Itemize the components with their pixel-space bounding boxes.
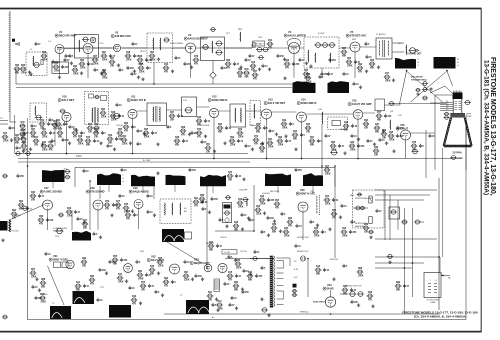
wire oscbox-V3 <box>173 47 186 49</box>
cluster right of S2 <box>169 114 176 118</box>
svg-text:V21: V21 <box>53 254 58 258</box>
svg-text:PWR A-C: PWR A-C <box>300 311 309 314</box>
wire <box>321 166 323 178</box>
svg-text:10K: 10K <box>108 143 113 145</box>
svg-text:47K: 47K <box>226 67 231 70</box>
wire V1 cathode <box>59 54 61 76</box>
svg-text:5U4G RECT: 5U4G RECT <box>313 301 326 304</box>
cluster right of B2 <box>352 82 355 86</box>
svg-text:6.3V: 6.3V <box>294 269 299 271</box>
cluster <box>115 103 118 107</box>
svg-text:R76: R76 <box>412 142 417 144</box>
svg-text:R21: R21 <box>73 129 78 131</box>
cluster <box>31 285 34 289</box>
svg-text:68K: 68K <box>19 209 24 211</box>
svg-text:47K: 47K <box>285 67 290 70</box>
cluster topB <box>101 72 108 76</box>
cluster r4h <box>230 296 233 300</box>
cluster t22 <box>130 72 133 76</box>
cluster right of V18 <box>104 203 111 207</box>
cluster t19 <box>364 42 367 46</box>
sound IF transformer box <box>201 37 225 61</box>
cluster t17 <box>328 58 331 62</box>
svg-text:R95: R95 <box>144 129 149 131</box>
resistor <box>41 60 43 65</box>
page border bottom <box>0 331 482 333</box>
cluster <box>183 260 186 264</box>
S4 winding B <box>240 108 243 122</box>
quadrature coil box D7 <box>160 199 191 224</box>
svg-text:DET: DET <box>352 39 357 41</box>
tube V2B osc <box>113 44 120 51</box>
svg-text:R29: R29 <box>238 129 243 131</box>
tube V18 <box>93 200 103 210</box>
cluster <box>68 125 71 129</box>
circle in hmult <box>357 193 363 196</box>
svg-text:100K: 100K <box>73 74 79 76</box>
svg-text:R46: R46 <box>234 221 239 224</box>
svg-text:T1 AUDIO: T1 AUDIO <box>376 33 386 36</box>
cluster A6 <box>72 131 79 135</box>
cluster <box>34 296 37 300</box>
cluster <box>223 141 226 144</box>
left boundary wire <box>27 165 29 320</box>
wire top row <box>196 47 252 49</box>
svg-text:68K: 68K <box>58 137 63 139</box>
svg-text:10K: 10K <box>88 132 93 134</box>
wire V11 down <box>132 119 134 154</box>
cluster <box>244 58 247 62</box>
hatch above CRT cap <box>454 91 462 93</box>
stub B7 <box>142 186 144 193</box>
wire V2 cathode <box>87 54 89 79</box>
svg-text:10K: 10K <box>374 155 379 157</box>
wire V5 cathode <box>354 52 356 78</box>
vertical wire x14.7 <box>14 115 16 154</box>
cluster <box>392 149 395 152</box>
cluster <box>146 210 149 214</box>
svg-text:V24: V24 <box>327 283 332 287</box>
cluster under V13 <box>255 126 262 130</box>
wire to connector <box>439 257 441 273</box>
sound takeoff transformer (black) <box>72 231 91 241</box>
svg-text:R17: R17 <box>385 73 390 75</box>
cluster <box>240 213 243 217</box>
svg-text:220K: 220K <box>230 145 236 147</box>
shield line ticks <box>9 13 11 113</box>
cluster x379 <box>376 114 383 118</box>
svg-text:220K: 220K <box>325 204 331 206</box>
cluster <box>294 244 297 248</box>
cluster t14 <box>267 42 274 46</box>
comp column a <box>422 82 428 86</box>
svg-text:R40: R40 <box>284 227 289 230</box>
cluster A8 <box>93 131 100 135</box>
svg-text:68K: 68K <box>150 274 155 276</box>
wire <box>321 68 323 78</box>
cluster above V23 <box>227 255 230 259</box>
cluster r2r <box>294 147 297 150</box>
svg-text:10K: 10K <box>21 138 26 140</box>
CRT funnel right side <box>465 118 472 147</box>
junction <box>330 313 332 315</box>
coil slug <box>215 41 223 46</box>
svg-text:R91: R91 <box>218 124 223 126</box>
junction <box>66 153 68 155</box>
cluster under V17 <box>38 218 45 222</box>
audio lead wire 4 <box>447 71 453 86</box>
cluster under V3 <box>183 62 186 66</box>
slug in S3 <box>184 107 192 113</box>
cluster t13 <box>248 54 251 58</box>
vert output transformer T5 (black) <box>50 306 71 319</box>
tap link a <box>283 261 285 269</box>
svg-text:R74: R74 <box>197 128 202 131</box>
cluster r3k <box>328 227 331 230</box>
cluster x78 <box>75 284 82 288</box>
page border top <box>0 8 482 10</box>
volume pot <box>56 228 64 234</box>
svg-text:R68: R68 <box>364 224 369 226</box>
cluster <box>82 222 89 226</box>
wire x308 <box>307 259 309 298</box>
volume pot left <box>22 206 29 210</box>
T1 box <box>376 38 392 59</box>
wire y257 <box>375 256 440 258</box>
wire V19 down <box>138 209 140 230</box>
small tube cap <box>90 37 96 43</box>
wire S3-V12 <box>197 106 210 108</box>
capacitor <box>429 87 432 91</box>
ground cluster <box>29 72 32 75</box>
svg-text:100K: 100K <box>314 236 320 238</box>
svg-text:47K: 47K <box>288 225 293 228</box>
cluster <box>255 208 262 212</box>
comp small <box>415 88 421 91</box>
svg-text:V3: V3 <box>188 33 192 37</box>
cluster r3d <box>218 218 221 222</box>
B+ bus 1 <box>15 153 248 155</box>
cluster r2o <box>244 144 247 148</box>
resistor row A <box>14 137 21 141</box>
svg-text:47K: 47K <box>194 63 199 66</box>
cluster r2m <box>205 146 212 150</box>
stub B5 <box>52 182 54 188</box>
svg-text:PEAK: PEAK <box>340 128 346 131</box>
cluster midA <box>30 124 33 128</box>
D7 coil A <box>164 203 167 215</box>
svg-text:6BC5 RF AMP: 6BC5 RF AMP <box>59 34 76 38</box>
svg-text:100K: 100K <box>54 71 60 73</box>
cluster <box>120 168 123 172</box>
junction <box>404 267 406 269</box>
wire T1 to det <box>392 42 404 44</box>
svg-text:220K: 220K <box>284 236 290 238</box>
svg-text:R17: R17 <box>83 220 88 222</box>
svg-text:220K: 220K <box>158 266 164 268</box>
junction <box>321 165 323 167</box>
junction <box>190 47 192 49</box>
resistor cluster <box>20 67 27 71</box>
wire <box>384 190 386 240</box>
svg-text:R27: R27 <box>58 129 63 131</box>
svg-text:68K: 68K <box>15 143 20 145</box>
svg-text:47K: 47K <box>124 130 129 133</box>
bus y162 <box>18 161 250 163</box>
svg-text:10K: 10K <box>382 138 387 140</box>
heater bus wire <box>16 87 292 89</box>
coil slug top <box>202 44 210 49</box>
wire y239 <box>375 238 437 240</box>
svg-text:220K: 220K <box>122 144 128 146</box>
black block B11 <box>303 173 323 186</box>
svg-text:47K: 47K <box>73 136 78 139</box>
svg-text:R32: R32 <box>21 130 26 132</box>
comp left edge bottom <box>2 315 8 319</box>
cluster r4c <box>98 268 101 272</box>
svg-text:R43: R43 <box>31 191 36 194</box>
circle right of B5 b <box>64 175 70 179</box>
circle right of B5 <box>64 170 70 174</box>
svg-text:R58: R58 <box>39 216 44 218</box>
wire <box>251 44 253 48</box>
osc coil 1 <box>152 38 155 50</box>
contrast pot <box>330 150 338 155</box>
svg-text:10K: 10K <box>306 132 311 134</box>
tube V20 <box>298 202 308 212</box>
cluster t20 <box>369 62 376 66</box>
pot x360 <box>357 292 364 297</box>
svg-text:C7 10: C7 10 <box>98 43 104 45</box>
wire V4-D4 <box>300 47 305 49</box>
cluster t3 <box>68 54 71 58</box>
svg-text:R43: R43 <box>197 116 202 119</box>
horiz osc coil <box>317 195 320 215</box>
cluster r2e <box>85 139 92 143</box>
svg-text:R99: R99 <box>230 137 235 139</box>
svg-text:10K: 10K <box>364 232 369 234</box>
cluster r4n <box>395 284 402 288</box>
svg-text:100K: 100K <box>278 145 284 147</box>
svg-text:R99: R99 <box>358 64 363 66</box>
cluster topA <box>64 54 67 58</box>
cluster x333 <box>330 144 337 148</box>
terminal dot B3 <box>406 70 408 72</box>
svg-text:6CB6 1ST IF: 6CB6 1ST IF <box>131 98 147 102</box>
comp on bus 2 <box>25 152 31 156</box>
cluster in tuner sub box <box>53 65 60 69</box>
svg-text:270V: 270V <box>76 155 82 158</box>
CRT neck cap (ion trap) <box>453 93 463 100</box>
svg-text:R32: R32 <box>248 272 253 274</box>
svg-text:47K: 47K <box>358 71 363 74</box>
svg-text:R61: R61 <box>194 198 199 200</box>
cluster t15 <box>276 54 279 58</box>
svg-text:R26: R26 <box>236 260 241 262</box>
svg-text:220K: 220K <box>256 214 262 216</box>
IF transformer box S2 <box>147 103 167 126</box>
svg-text:OSC: OSC <box>258 37 263 39</box>
svg-text:47K: 47K <box>116 208 121 211</box>
cluster left of V14 <box>281 122 288 126</box>
svg-text:68K: 68K <box>238 77 243 79</box>
svg-text:R43: R43 <box>238 198 243 201</box>
svg-text:12MG: 12MG <box>457 158 463 160</box>
cluster botA <box>112 258 119 262</box>
wire <box>389 195 391 240</box>
junction <box>266 158 268 160</box>
junction <box>307 258 309 260</box>
peaking coil x390 <box>389 120 392 130</box>
tube V23a <box>204 264 212 272</box>
CRT face <box>444 145 472 148</box>
cluster r4m <box>357 270 364 274</box>
svg-text:220K: 220K <box>184 280 190 282</box>
svg-text:10K: 10K <box>12 218 17 220</box>
cluster under S4 <box>237 131 244 135</box>
svg-text:100K: 100K <box>138 64 144 66</box>
transformer core <box>93 107 95 123</box>
ground <box>58 75 61 78</box>
svg-text:4.5MC SOUND: 4.5MC SOUND <box>44 190 62 194</box>
wire V2A-V2B <box>93 47 112 49</box>
wire y263 <box>375 262 424 264</box>
cluster t5 <box>101 54 108 58</box>
comp under PT <box>261 308 268 312</box>
svg-text:100K: 100K <box>282 128 288 130</box>
svg-text:INTERLOCK: INTERLOCK <box>297 251 309 253</box>
cluster r4d <box>108 260 111 264</box>
svg-text:R94: R94 <box>364 119 369 122</box>
svg-text:MC: MC <box>184 211 188 213</box>
svg-text:100K: 100K <box>325 174 331 176</box>
svg-text:R13: R13 <box>164 64 169 66</box>
cluster <box>305 126 312 130</box>
svg-text:6AL5 VID DET: 6AL5 VID DET <box>268 101 286 105</box>
svg-text:100K: 100K <box>238 207 244 209</box>
cluster <box>156 171 159 174</box>
diagonal wires to CRT top <box>430 86 452 93</box>
svg-text:R43: R43 <box>132 295 137 298</box>
wire y231 <box>215 230 254 232</box>
right long wire x466 <box>465 115 467 320</box>
svg-text:R53: R53 <box>80 60 85 62</box>
svg-text:R89: R89 <box>200 195 205 197</box>
deflection yoke band <box>451 113 466 118</box>
junction <box>357 158 359 160</box>
tube V4 limiter <box>289 43 300 54</box>
svg-text:R74: R74 <box>141 281 146 284</box>
ground <box>35 277 38 280</box>
cluster t9 <box>131 42 134 46</box>
svg-text:P5: P5 <box>446 109 448 111</box>
cluster r4i <box>247 274 254 278</box>
svg-text:220K: 220K <box>80 68 86 70</box>
svg-text:R54: R54 <box>332 209 337 212</box>
coil in box S1 <box>211 41 214 53</box>
svg-text:R51: R51 <box>206 144 211 146</box>
comp near V10 <box>59 109 65 113</box>
cluster <box>350 134 353 138</box>
tube V19 <box>134 200 143 209</box>
svg-text:10K: 10K <box>364 128 369 130</box>
svg-text:10K: 10K <box>40 128 45 130</box>
svg-text:R59: R59 <box>108 135 113 137</box>
black block B8 <box>166 175 186 185</box>
svg-text:68K: 68K <box>248 280 253 282</box>
svg-text:FOCUS: FOCUS <box>12 231 20 233</box>
svg-text:V19: V19 <box>133 186 138 190</box>
osc coil 2 <box>159 38 162 50</box>
cluster right of T7 <box>211 303 214 307</box>
svg-text:47K: 47K <box>332 217 337 220</box>
cluster <box>237 71 244 75</box>
wire V11-S2 <box>137 110 147 112</box>
svg-text:R84 10K: R84 10K <box>330 259 339 261</box>
trimmer <box>33 62 41 67</box>
cluster under D6 <box>87 126 94 130</box>
svg-text:R18: R18 <box>126 52 131 54</box>
svg-text:OSC ADJ: OSC ADJ <box>254 43 263 46</box>
ground <box>416 92 419 95</box>
cluster r2u <box>349 144 356 148</box>
svg-text:R61: R61 <box>102 52 107 54</box>
IF transformer box S4 <box>230 104 246 127</box>
cluster t10 <box>163 66 170 70</box>
wire <box>399 103 401 105</box>
tuner sub box <box>52 62 69 73</box>
svg-text:47K: 47K <box>228 279 233 282</box>
audio lead wire 2 <box>407 71 443 102</box>
fuse <box>252 257 258 261</box>
wire x335 <box>334 166 336 258</box>
cluster A9 <box>99 141 102 144</box>
cluster below T2 <box>384 75 391 79</box>
horizontal multivibrator dashed box <box>353 190 385 228</box>
diagonal wire V21 to T5 <box>48 266 65 305</box>
svg-text:V14: V14 <box>301 98 306 102</box>
AC line wire <box>225 258 270 260</box>
cluster x230 <box>227 274 234 278</box>
svg-text:R39: R39 <box>42 52 47 54</box>
svg-text:G: G <box>457 65 459 67</box>
svg-text:R63: R63 <box>21 65 26 67</box>
svg-text:V11: V11 <box>131 95 136 99</box>
capacitor cluster <box>51 60 54 64</box>
ground bus y314 <box>164 313 440 315</box>
svg-text:V4: V4 <box>288 30 292 34</box>
cluster <box>253 138 260 142</box>
svg-text:68K: 68K <box>375 132 380 134</box>
cluster r2h <box>143 131 150 135</box>
cluster right of choke <box>131 298 138 302</box>
svg-text:R16: R16 <box>316 266 321 268</box>
comp with leads <box>414 220 421 224</box>
wire to V4 <box>268 47 289 49</box>
cluster left of V12 <box>196 119 203 123</box>
cluster <box>93 68 96 72</box>
CRT pin long wire <box>392 103 446 105</box>
cluster r3n <box>363 226 370 230</box>
coil in tuner box <box>32 56 35 66</box>
grid cap element <box>287 39 301 48</box>
wire x90 <box>89 181 91 230</box>
svg-text:220K: 220K <box>389 140 395 142</box>
wire <box>212 79 214 85</box>
tap bus <box>289 258 291 266</box>
wire <box>15 69 17 84</box>
wire V3 cathode <box>190 53 192 78</box>
